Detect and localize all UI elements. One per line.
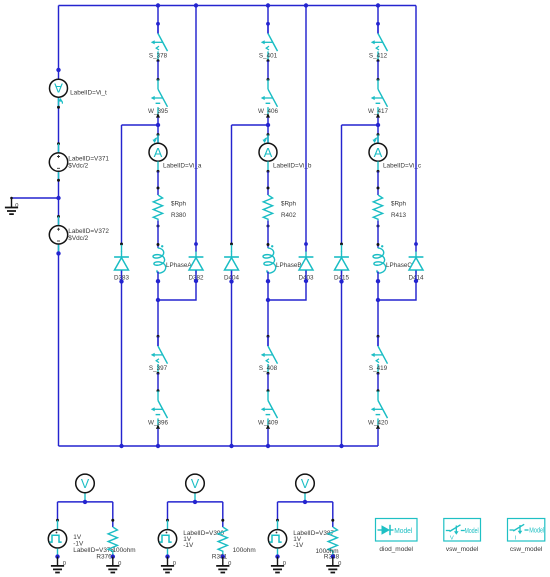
node D415 bottom rail junction <box>339 444 343 448</box>
inductor LPhaseA <box>153 245 192 273</box>
pulse source LabelID=V387 <box>268 520 286 556</box>
node sub1 resistor bottom <box>111 554 115 558</box>
wire phase B leg upper <box>267 6 269 34</box>
node above V371 <box>57 142 60 145</box>
svg-text:S_401: S_401 <box>259 52 278 59</box>
node A below resistor <box>157 225 160 228</box>
svg-text:$Vdc/2: $Vdc/2 <box>68 235 88 242</box>
ground sub2 resistor <box>216 557 231 573</box>
node A right diode lead <box>194 242 198 246</box>
node above W_417 <box>377 78 380 81</box>
svg-text:LPhaseC: LPhaseC <box>386 262 412 269</box>
node A above ammeter <box>157 133 160 136</box>
switch W_396 <box>148 391 168 429</box>
wire C between bottom switches <box>377 373 379 390</box>
svg-text:0: 0 <box>173 561 176 567</box>
node B left diode lead <box>230 243 233 246</box>
ammeter Vi_t <box>50 79 107 107</box>
ground 0 <box>5 197 19 214</box>
node D404 bottom rail junction <box>229 444 233 448</box>
svg-text:0: 0 <box>338 561 341 567</box>
node top-left junction <box>56 68 60 72</box>
wire sub1 top link <box>58 502 113 527</box>
wire B between bottom switches <box>267 373 269 390</box>
svg-text:R380: R380 <box>171 212 187 219</box>
wire C to bottom rail <box>377 429 379 446</box>
ammeter Vi_c <box>369 135 422 172</box>
wire A between top switches <box>157 61 159 80</box>
wire B resistor to inductor <box>267 221 269 248</box>
svg-text:LabelID=Vi_t: LabelID=Vi_t <box>70 89 107 96</box>
node sub1 meter tap <box>83 500 87 504</box>
node B above resistor <box>267 187 270 190</box>
svg-text:S_412: S_412 <box>369 52 388 59</box>
wire C inductor to output node <box>377 272 379 347</box>
svg-text:$Rph: $Rph <box>391 201 407 208</box>
node A right branch top <box>194 3 198 7</box>
svg-text:100ohm: 100ohm <box>113 547 136 554</box>
svg-text:LabelID=V371: LabelID=V371 <box>68 155 109 162</box>
wire A between bottom switches <box>157 373 159 390</box>
diode D383 <box>114 252 130 282</box>
diode D403 <box>298 252 314 282</box>
pulse source LabelID=V375 <box>48 520 66 556</box>
svg-text:-1V: -1V <box>183 542 194 549</box>
node A below ammeter <box>157 170 160 173</box>
wire B right diode branch <box>305 6 307 252</box>
ground sub3 source <box>271 557 286 573</box>
node sub2 source top <box>166 519 169 522</box>
svg-text:V: V <box>450 536 454 542</box>
wire B ammeter to resistor <box>267 171 269 195</box>
wire D414 to output tee <box>378 271 416 301</box>
node phase A top rail junction <box>156 3 160 7</box>
node phase B switch top <box>266 22 270 26</box>
wire B mid node link <box>267 118 269 144</box>
voltmeter sub-circuit 2 <box>186 474 205 502</box>
switch W_406 <box>258 80 278 118</box>
wire A inductor to output node <box>157 272 159 347</box>
svg-text:R402: R402 <box>281 212 297 219</box>
node above W_406 <box>267 78 270 81</box>
wire B inductor to output node <box>267 272 269 347</box>
node C above resistor <box>377 187 380 190</box>
node sub3 resistor top <box>331 519 334 522</box>
resistor R388 <box>316 527 340 560</box>
node above W_396 <box>157 389 160 392</box>
wire B diode branch top <box>232 125 269 243</box>
switch W_420 <box>368 391 388 429</box>
node below D415 <box>339 279 343 283</box>
wire top rail <box>59 5 417 7</box>
svg-text:Model: Model <box>529 525 544 534</box>
svg-text:diod_model: diod_model <box>379 546 413 553</box>
node sub3 resistor bottom <box>331 554 335 558</box>
svg-text:R376: R376 <box>96 553 112 560</box>
node above S_397 <box>157 335 160 338</box>
ground sub1 resistor <box>106 557 121 573</box>
wire C between top switches <box>377 61 379 80</box>
svg-text:A: A <box>264 145 273 160</box>
node C right diode lead <box>414 242 418 246</box>
node B above ammeter <box>267 133 270 136</box>
wire to ground tap <box>12 197 59 199</box>
resistor R380 <box>153 195 186 220</box>
svg-text:S_397: S_397 <box>149 365 168 372</box>
node B right diode lead <box>304 242 308 246</box>
svg-text:Model: Model <box>465 526 479 535</box>
node B output <box>266 279 270 283</box>
svg-text:A: A <box>374 145 383 160</box>
voltmeter sub-circuit 3 <box>296 474 315 502</box>
wire C diode branch top <box>342 125 379 243</box>
svg-text:100ohm: 100ohm <box>233 547 256 554</box>
node C above inductor <box>377 243 380 246</box>
switch W_409 <box>258 391 278 429</box>
wire A right diode branch <box>195 6 197 252</box>
ground sub2 source <box>161 557 176 573</box>
node below D414 <box>414 279 418 283</box>
wire D382 to output tee <box>158 271 196 301</box>
node below D404 <box>229 279 233 283</box>
node C below resistor <box>377 225 380 228</box>
svg-text:V: V <box>81 477 90 491</box>
wire A mid node link <box>157 118 159 144</box>
voltmeter sub-circuit 1 <box>76 474 95 502</box>
node sub1 source top <box>56 519 59 522</box>
node below D382 <box>194 279 198 283</box>
svg-text:0: 0 <box>118 561 121 567</box>
node B bottom rail junction <box>266 444 270 448</box>
svg-text:0: 0 <box>15 203 18 209</box>
node C below ammeter <box>377 170 380 173</box>
pulse source LabelID=V390 <box>158 520 176 556</box>
svg-text:$Rph: $Rph <box>281 201 297 208</box>
wire sub3 top link <box>278 502 333 527</box>
svg-text:csw_model: csw_model <box>510 546 543 553</box>
wire D415 to bottom rail <box>341 271 343 447</box>
wire C right diode branch <box>415 6 417 252</box>
resistor R376 <box>96 527 135 560</box>
switch S_378 <box>149 24 168 63</box>
node sub1 source bottom <box>55 554 59 558</box>
node phase C switch top <box>376 22 380 26</box>
switch S_408 <box>259 336 278 375</box>
wire A to bottom rail <box>157 429 159 446</box>
wire C mid node link <box>377 118 379 144</box>
node phase C top rail junction <box>376 3 380 7</box>
switch W_417 <box>368 80 388 118</box>
wire phase A leg upper <box>157 6 159 34</box>
svg-text:0: 0 <box>283 561 286 567</box>
svg-text:0: 0 <box>228 561 231 567</box>
voltage source V371 <box>49 144 109 181</box>
node below Vi_t <box>57 106 60 109</box>
node C mid junction <box>376 123 380 127</box>
wire left DC bus <box>58 6 60 447</box>
wire A diode branch top <box>122 125 159 243</box>
svg-text:V: V <box>191 477 200 491</box>
node B above inductor <box>267 243 270 246</box>
node C above ammeter <box>377 133 380 136</box>
svg-text:V: V <box>301 477 310 491</box>
wire B between top switches <box>267 61 269 80</box>
wire D403 to output tee <box>268 271 306 301</box>
inductor LPhaseB <box>263 245 302 273</box>
svg-text:-1V: -1V <box>293 542 304 549</box>
wire A ammeter to resistor <box>157 171 159 195</box>
svg-text:S_378: S_378 <box>149 52 168 59</box>
node B below resistor <box>267 225 270 228</box>
diode D382 <box>188 252 204 282</box>
resistor R381 <box>212 527 256 560</box>
node B right branch top <box>304 3 308 7</box>
node below D403 <box>304 279 308 283</box>
voltage source V372 <box>49 217 109 254</box>
node above S_419 <box>377 335 380 338</box>
ammeter Vi_b <box>259 135 312 172</box>
wire B to bottom rail <box>267 429 269 446</box>
svg-text:vsw_model: vsw_model <box>446 546 479 553</box>
wire A resistor to inductor <box>157 221 159 248</box>
switch S_401 <box>259 24 278 63</box>
inductor LPhaseC <box>373 245 412 273</box>
node below D383 <box>119 279 123 283</box>
svg-text:LPhaseA: LPhaseA <box>166 262 192 269</box>
node A above inductor <box>157 243 160 246</box>
svg-text:Model: Model <box>394 526 412 535</box>
node A output <box>156 279 160 283</box>
node ground tap <box>56 196 60 200</box>
svg-text:LPhaseB: LPhaseB <box>276 262 302 269</box>
wire D383 to bottom rail <box>121 271 123 447</box>
node above W_409 <box>267 389 270 392</box>
wire sub2 top link <box>168 502 223 527</box>
node A mid junction <box>156 123 160 127</box>
svg-text:S_419: S_419 <box>369 365 388 372</box>
node D383 bottom rail junction <box>119 444 123 448</box>
node phase B top rail junction <box>266 3 270 7</box>
node sub1 resistor top <box>111 519 114 522</box>
wire phase C leg upper <box>377 6 379 34</box>
node sub2 resistor top <box>221 519 224 522</box>
node C left diode lead <box>340 243 343 246</box>
svg-text:A: A <box>54 81 63 96</box>
node A left diode lead <box>120 243 123 246</box>
node phase A switch top <box>156 22 160 26</box>
node B output tee <box>266 298 270 302</box>
model box csw_model <box>508 519 545 554</box>
wire C ammeter to resistor <box>377 171 379 195</box>
node sub3 source bottom <box>275 554 279 558</box>
node above V372 <box>57 215 60 218</box>
svg-text:R413: R413 <box>391 212 407 219</box>
node sub2 resistor bottom <box>221 554 225 558</box>
ammeter Vi_a <box>149 135 202 172</box>
ground sub3 resistor <box>326 557 341 573</box>
resistor R402 <box>263 195 296 220</box>
svg-text:$Rph: $Rph <box>171 201 187 208</box>
node C output tee <box>376 298 380 302</box>
wire C resistor to inductor <box>377 221 379 248</box>
ground sub1 source <box>51 557 66 573</box>
node B mid junction <box>266 123 270 127</box>
switch S_397 <box>149 336 168 375</box>
node sub3 meter tap <box>303 500 307 504</box>
model box diod_model <box>376 519 418 554</box>
node C output <box>376 279 380 283</box>
node A output tee <box>156 298 160 302</box>
svg-text:R381: R381 <box>212 553 228 560</box>
svg-text:0: 0 <box>63 561 66 567</box>
wire bottom rail <box>59 445 379 447</box>
wire D404 to bottom rail <box>231 271 233 447</box>
node sub2 source bottom <box>165 554 169 558</box>
node sub2 meter tap <box>193 500 197 504</box>
node above W_420 <box>377 389 380 392</box>
diode D414 <box>408 252 424 282</box>
node below V371 <box>57 179 60 182</box>
node A above resistor <box>157 187 160 190</box>
svg-text:S_408: S_408 <box>259 365 278 372</box>
resistor R413 <box>373 195 406 220</box>
node B below ammeter <box>267 170 270 173</box>
node below V372 <box>56 251 60 255</box>
svg-text:$Vdc/2: $Vdc/2 <box>68 163 88 170</box>
switch W_395 <box>148 80 168 118</box>
node A bottom rail junction <box>156 444 160 448</box>
switch S_412 <box>369 24 388 63</box>
node sub3 source top <box>276 519 279 522</box>
switch S_419 <box>369 336 388 375</box>
node above W_395 <box>157 78 160 81</box>
node above S_408 <box>267 335 270 338</box>
svg-text:A: A <box>154 145 163 160</box>
diode D415 <box>334 252 350 282</box>
model box vsw_model <box>444 519 481 554</box>
diode D404 <box>224 252 240 282</box>
